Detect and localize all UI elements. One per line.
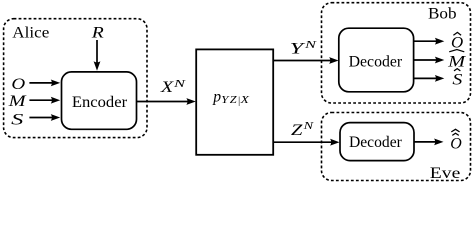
wire Z arrow: [273, 141, 332, 143]
svg-text:O: O: [11, 76, 25, 93]
svg-text:X: X: [160, 79, 175, 96]
svg-text:S: S: [452, 71, 462, 88]
wire O arrow: [29, 82, 52, 84]
svg-text:Eve: Eve: [430, 165, 461, 182]
block Decoder (Bob): [339, 28, 414, 92]
svg-text:p: p: [212, 89, 221, 106]
block Encoder: [62, 72, 137, 129]
wire output O-double-hat arrow: [414, 141, 436, 143]
wire M arrow: [29, 99, 52, 101]
wire Y arrow: [273, 60, 331, 62]
block channel p_YZ|X: [196, 49, 273, 154]
svg-text:M: M: [447, 53, 467, 70]
svg-text:N: N: [172, 79, 186, 90]
Bob dashed box: [322, 3, 471, 103]
svg-text:X: X: [239, 95, 250, 106]
svg-text:Z: Z: [230, 95, 237, 106]
svg-text:Encoder: Encoder: [72, 94, 128, 111]
Eve dashed box: [322, 113, 471, 181]
wire output M-hat arrow: [414, 59, 437, 61]
Alice dashed box: [4, 19, 147, 138]
svg-text:R: R: [91, 25, 104, 42]
svg-text:Alice: Alice: [12, 25, 49, 42]
svg-text:S: S: [11, 111, 23, 128]
svg-text:N: N: [302, 121, 314, 132]
wire R arrow: [96, 40, 98, 63]
label M-hat: [449, 50, 464, 52]
wire output O-hat arrow: [414, 40, 437, 42]
svg-text:N: N: [303, 40, 317, 51]
svg-text:O: O: [451, 34, 464, 51]
svg-text:O: O: [450, 135, 462, 152]
svg-text:Z: Z: [291, 122, 304, 139]
label O-hat: [453, 32, 461, 35]
block Decoder (Eve): [340, 123, 414, 161]
label S-hat: [454, 69, 460, 71]
svg-text:M: M: [7, 93, 27, 110]
svg-text:Decoder: Decoder: [349, 54, 403, 71]
wire output S-hat arrow: [414, 77, 437, 79]
svg-text:Decoder: Decoder: [349, 134, 402, 151]
wire S arrow: [29, 117, 52, 119]
label O-double-hat: [451, 129, 459, 132]
wire X arrow: [137, 101, 189, 103]
svg-text:Bob: Bob: [428, 6, 457, 23]
